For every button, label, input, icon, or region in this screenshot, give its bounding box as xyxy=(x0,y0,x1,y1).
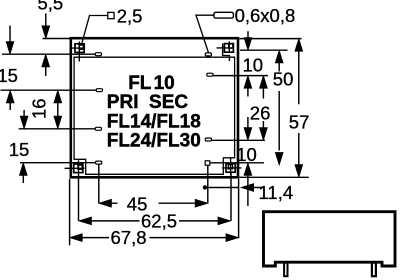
side pin mark m1R xyxy=(205,53,211,56)
dimension 26 down arrow xyxy=(262,121,264,129)
dimension 5,5 up arrow xyxy=(45,66,47,76)
vertical extension body right edge xyxy=(238,179,240,238)
pin P4 square (bottom-right) xyxy=(226,164,235,173)
svg-text:FL10: FL10 xyxy=(128,73,175,94)
svg-text:26: 26 xyxy=(250,103,271,124)
side pin mark m4R xyxy=(205,161,210,165)
dimension 15 bottom down arrow xyxy=(23,110,25,117)
dimension 57 line with arrows xyxy=(298,51,300,166)
vertical extension pin3 column xyxy=(78,175,80,221)
extension line top edge right xyxy=(239,38,301,40)
pin P1 square (top-left) xyxy=(75,44,84,53)
svg-text:10: 10 xyxy=(236,144,257,165)
svg-text:FL24/FL30: FL24/FL30 xyxy=(107,131,201,152)
svg-text:11,4: 11,4 xyxy=(259,182,294,203)
svg-text:67,8: 67,8 xyxy=(111,227,147,248)
pin P2 square (top-right) xyxy=(224,44,233,53)
pin P2 lead jog to inner outline xyxy=(223,44,230,62)
svg-text:0,6x0,8: 0,6x0,8 xyxy=(235,5,296,26)
label 2,5 leader line xyxy=(82,16,108,45)
pin P3 small square xyxy=(78,165,82,169)
label 2,5 square symbol xyxy=(108,12,114,18)
side pin mark m4L xyxy=(96,161,102,164)
dimension 16 double arrow xyxy=(57,102,59,118)
side view pin A xyxy=(284,263,287,277)
extension line row1 left xyxy=(2,53,95,55)
side pin mark m1L xyxy=(95,53,101,56)
transformer body outer outline xyxy=(71,38,238,177)
side pin mark m2R xyxy=(207,73,213,76)
pin P2 small square xyxy=(229,44,233,48)
side pin mark m2L xyxy=(96,89,102,92)
dimension 11,4 line and arrow xyxy=(205,187,263,189)
dimension 15 top up arrow xyxy=(9,102,11,110)
dimension 10 top-right up arrow xyxy=(247,88,249,97)
pin P4 small square xyxy=(228,165,232,169)
extension line row3 left xyxy=(19,128,96,130)
svg-text:50: 50 xyxy=(273,68,294,89)
dimension 10 top-right down arrow xyxy=(247,31,249,39)
svg-text:10: 10 xyxy=(243,54,264,75)
dimension 26 up arrow xyxy=(262,88,264,99)
label 0,6x0,8 pill symbol xyxy=(214,12,234,18)
svg-text:5,5: 5,5 xyxy=(38,0,64,13)
side pin mark m3L xyxy=(95,127,101,130)
label 0,6x0,8 leader line xyxy=(196,15,214,52)
vertical extension m4L column xyxy=(98,164,100,203)
dimension 67,8 line with arrows xyxy=(82,237,227,239)
svg-text:16: 16 xyxy=(29,98,50,119)
extension line row4 left xyxy=(20,162,96,164)
svg-text:15: 15 xyxy=(9,139,30,160)
pin P3 square (bottom-left) xyxy=(74,164,83,173)
extension line row4 right xyxy=(210,162,264,164)
pin P1 cross arms xyxy=(71,42,85,62)
extension line row2 right xyxy=(213,75,268,77)
extension line row1 right xyxy=(240,49,288,51)
side pin mark m3R xyxy=(205,138,211,141)
dimension 15 bottom up arrow xyxy=(22,175,24,184)
svg-text:57: 57 xyxy=(289,112,310,133)
transformer body inner outline with jogs around bottom pins xyxy=(74,57,235,174)
svg-text:15: 15 xyxy=(0,65,18,86)
svg-text:2,5: 2,5 xyxy=(117,5,143,26)
extension line bottom edge right xyxy=(239,176,308,178)
side view case outline xyxy=(264,212,396,266)
extension line top edge left stub xyxy=(43,38,71,40)
svg-text:PRI SEC: PRI SEC xyxy=(107,92,189,113)
extension line row3 right xyxy=(212,139,265,141)
extension line row2 left xyxy=(1,89,97,91)
pin P3 cross arms xyxy=(65,160,85,175)
svg-text:FL14/FL18: FL14/FL18 xyxy=(107,111,201,132)
pin P1 small square xyxy=(79,45,83,49)
vertical extension from m4R column with origin dot xyxy=(207,165,209,203)
dimension 45 line with arrows xyxy=(111,202,196,204)
pin P2 cross arms xyxy=(217,41,234,52)
dimension 50 line with arrows xyxy=(278,62,280,151)
vertical extension pin4 column xyxy=(230,173,232,221)
dimension 5,5 down arrow xyxy=(45,13,47,27)
vertical extension body left edge xyxy=(69,179,71,245)
pin P4 cross arms xyxy=(222,159,241,176)
dimension 62,5 line with arrows xyxy=(91,220,219,222)
dimension 10 bottom-right up arrow xyxy=(247,175,249,206)
side view pin B xyxy=(372,263,376,277)
dimension 15 top down arrow xyxy=(9,26,11,44)
dimension 10 bottom-right down arrow xyxy=(247,117,249,129)
